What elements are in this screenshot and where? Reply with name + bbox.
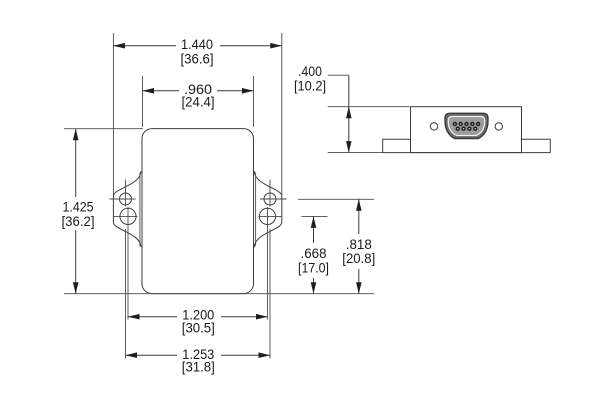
dimension .960 inner width [143, 76, 254, 127]
side view right screw hole [495, 123, 502, 130]
svg-text:[36.6]: [36.6] [181, 50, 214, 66]
side view left flange [383, 139, 411, 152]
side view left screw hole [430, 123, 437, 130]
dimension 1.200 hole span [128, 207, 268, 336]
body outline front view [142, 129, 254, 294]
side view right flange [522, 139, 551, 152]
dimension 1.253 hole span [126, 229, 271, 375]
side view bottom line [383, 152, 551, 154]
D-sub connector shell [445, 113, 488, 138]
svg-text:[10.2]: [10.2] [294, 77, 326, 93]
svg-text:[30.5]: [30.5] [182, 320, 215, 336]
svg-text:[20.8]: [20.8] [342, 250, 375, 266]
side view main body rectangle [411, 107, 522, 153]
right hole centerlines [259, 180, 287, 217]
left large hole [120, 208, 136, 224]
right large hole [259, 208, 275, 224]
svg-text:1.425: 1.425 [63, 198, 94, 214]
left small hole [120, 193, 132, 205]
right mounting ear [254, 171, 281, 247]
right small hole [264, 193, 276, 205]
left hole centerlines [110, 180, 138, 217]
left mounting ear [113, 171, 141, 247]
dimension .668 [298, 216, 329, 293]
svg-text:[31.8]: [31.8] [182, 359, 215, 375]
bottom extension line shared [64, 293, 374, 295]
dimension .400 side view [294, 63, 410, 152]
dimension .818 [298, 199, 375, 293]
svg-text:[36.2]: [36.2] [62, 213, 95, 229]
svg-text:[24.4]: [24.4] [182, 94, 215, 110]
dimension 1.440 overall width [113, 33, 281, 195]
dimension 1.425 height [62, 129, 144, 294]
svg-text:[17.0]: [17.0] [298, 259, 329, 275]
D-sub insert [448, 117, 485, 136]
D-sub pins row 1 [453, 122, 481, 126]
D-sub pins row 2 [456, 127, 478, 131]
